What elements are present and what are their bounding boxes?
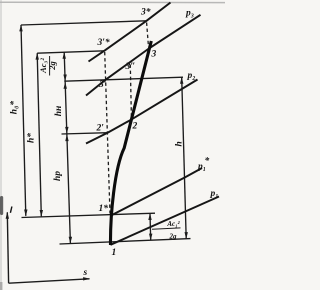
svg-text:hн: hн [54, 106, 64, 117]
svg-text:*: * [205, 156, 210, 167]
svg-text:p₂: p₂ [187, 71, 196, 81]
svg-text:2′: 2′ [96, 124, 105, 134]
svg-text:1: 1 [112, 248, 117, 258]
svg-text:3′*: 3′* [97, 37, 110, 48]
svg-text:p₁: p₁ [210, 189, 219, 199]
svg-text:1*: 1* [99, 203, 109, 214]
svg-text:h: h [175, 141, 185, 146]
svg-text:Ac₃²: Ac₃² [39, 58, 48, 74]
svg-text:3′: 3′ [98, 80, 107, 90]
svg-text:2g: 2g [48, 61, 57, 70]
svg-text:3*: 3* [140, 7, 151, 18]
svg-text:2: 2 [132, 122, 138, 132]
svg-text:p₃: p₃ [185, 9, 194, 19]
svg-text:hр: hр [53, 171, 63, 181]
svg-text:2g: 2g [169, 233, 178, 241]
svg-text:h*: h* [26, 133, 37, 143]
svg-text:3: 3 [151, 50, 157, 60]
svg-text:Ac₁²: Ac₁² [166, 220, 180, 228]
svg-text:h₀*: h₀* [9, 101, 20, 115]
svg-text:3″: 3″ [125, 62, 136, 72]
svg-text:s: s [83, 268, 88, 278]
